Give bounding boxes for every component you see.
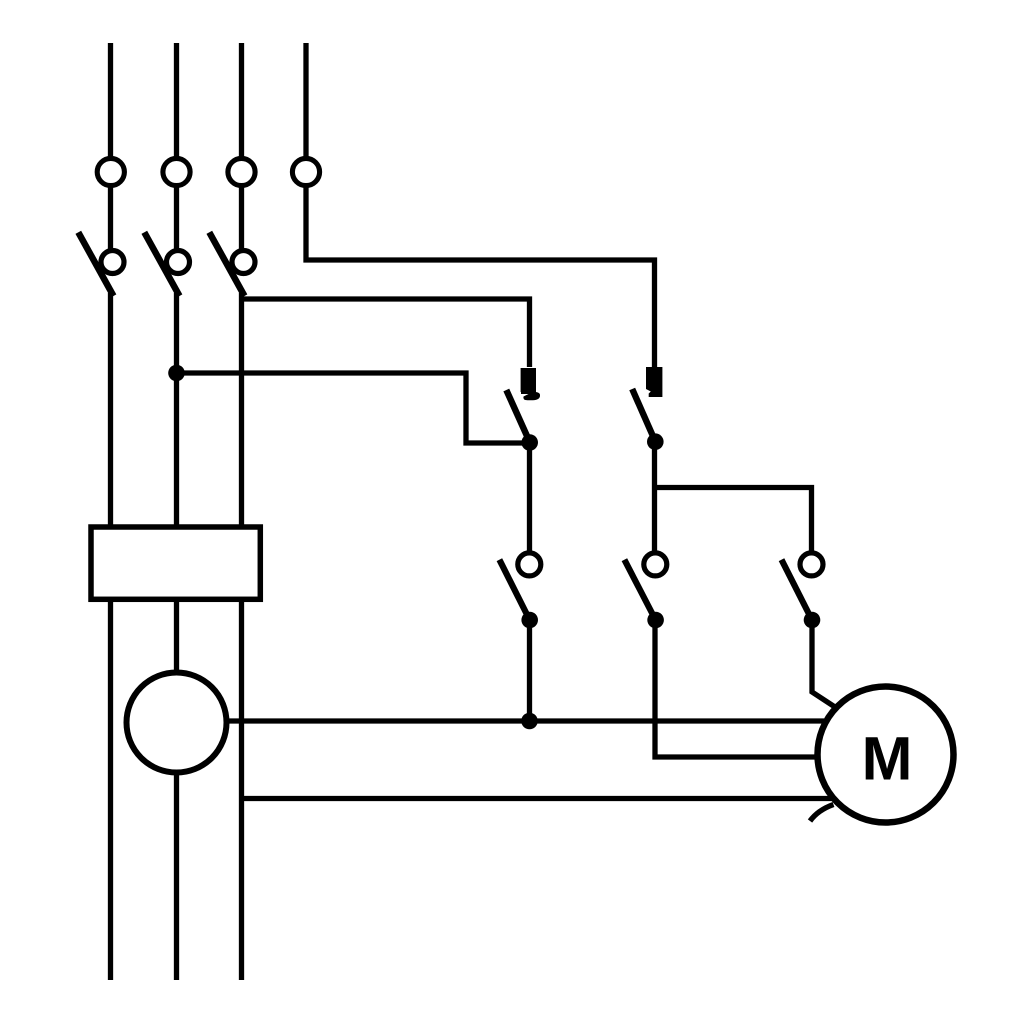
switch Q1 pole 2 blade (144, 232, 179, 296)
wire from node A to K1 moving contact (177, 373, 528, 443)
wire K2 to switch S2 (652, 442, 657, 553)
contactor K1 blade (506, 390, 529, 442)
terminal circle L1 (97, 158, 124, 185)
wire phase L3 lower (239, 293, 244, 980)
wire phase L2 upper (174, 43, 179, 251)
switch Q1 pole 2 contact circle (167, 251, 190, 274)
contactor K1 contact foot (521, 392, 540, 400)
meter G circle (127, 673, 227, 773)
wire S3 to motor M (812, 620, 838, 709)
switch Q1 pole 1 blade (78, 232, 113, 296)
terminal circle L3 (228, 158, 255, 185)
switch Q1 pole 1 contact circle (101, 251, 124, 274)
switch Q1 pole 3 blade (209, 232, 244, 296)
switch S3 contact circle (800, 553, 823, 576)
wire S2 to motor M (655, 620, 820, 757)
junction dot S1 pivot (521, 612, 538, 629)
junction dot K2 pivot (647, 433, 664, 450)
wire phase L2 lower (174, 293, 179, 980)
wire phase L3 upper (239, 43, 244, 251)
wire S1 to bus junction (527, 620, 532, 721)
junction dot S2 pivot (647, 612, 664, 629)
wire L3 lower to motor M (242, 796, 837, 801)
overload relay F1 (91, 527, 260, 599)
junction dot bus (521, 713, 538, 730)
wire phase L1 upper (108, 43, 113, 251)
wire branch to switch S3 (655, 488, 812, 554)
switch Q1 pole 3 contact circle (232, 251, 255, 274)
wire K1 to switch S1 (527, 443, 532, 554)
junction dot K1 pivot (521, 434, 538, 451)
contactor K2 blade (632, 389, 655, 442)
contactor K2 fixed contact block (646, 367, 662, 397)
wire phase L1 lower (108, 293, 113, 980)
switch S2 blade (624, 560, 655, 620)
motor M1 circle (818, 687, 954, 823)
junction dot S3 pivot (804, 612, 821, 629)
node A junction dot (168, 365, 185, 382)
wire phase L4 to contactor K2 (306, 43, 655, 367)
switch S3 blade (782, 560, 813, 620)
wire bus from meter G to motor M (177, 718, 825, 723)
terminal circle L2 (163, 158, 190, 185)
svg-text:M: M (862, 725, 913, 793)
terminal circle L4 (292, 158, 319, 185)
switch S1 contact circle (518, 553, 541, 576)
switch S2 contact circle (644, 553, 667, 576)
contactor K1 fixed contact block (521, 368, 536, 392)
wire from L3 switch to contactor K1 (242, 299, 530, 367)
switch S1 blade (499, 560, 529, 620)
motor M1 curved tail (810, 805, 834, 822)
